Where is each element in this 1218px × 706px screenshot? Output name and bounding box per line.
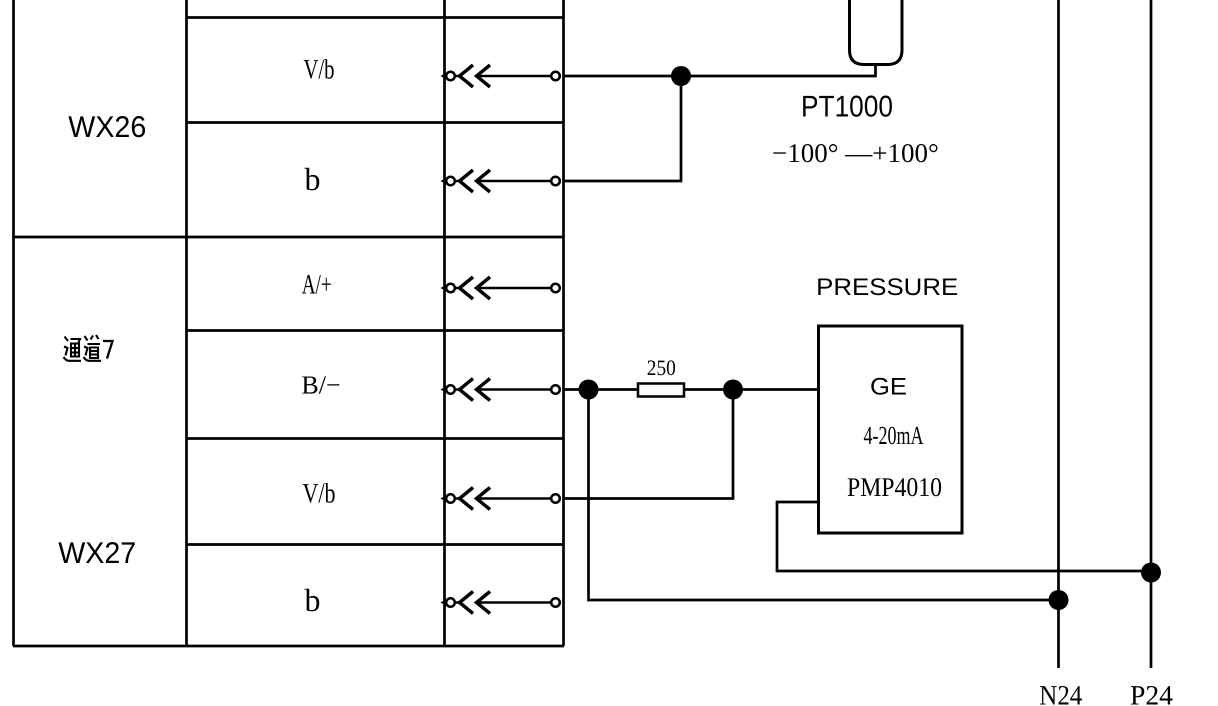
connector contact row 6 (b WX27) xyxy=(441,592,560,614)
connector contact row 2 (b WX26) xyxy=(441,170,560,192)
wire: table bottom line y646 xyxy=(13,645,564,648)
connector contact row 4 (B/-) xyxy=(441,379,560,401)
wire: N24 power rail vertical xyxy=(1057,0,1060,668)
wire: row line y438 xyxy=(187,437,565,440)
svg-text:V/b: V/b xyxy=(303,479,336,510)
wire: row line y122 xyxy=(187,121,565,124)
wire: right junction down to V/b WX27 row xyxy=(564,390,733,499)
svg-text:V/b: V/b xyxy=(304,55,335,86)
terminal block channel 7 label (Chinese: tongdao 7) xyxy=(64,335,113,361)
resistor 250 body xyxy=(638,384,684,397)
node: junction on N24 line xyxy=(1049,590,1069,610)
node: junction on V/b wire xyxy=(671,66,691,86)
svg-text:4-20mA: 4-20mA xyxy=(864,421,924,450)
wire: terminal table vertical border left xyxy=(12,0,15,646)
digit 7 of channel label xyxy=(103,341,113,359)
svg-text:b: b xyxy=(305,582,321,618)
pressure transmitter U1 box xyxy=(819,326,963,533)
wire: terminal table vertical border 3 xyxy=(443,0,446,646)
wire: row line y17 xyxy=(187,16,565,19)
svg-text:250: 250 xyxy=(647,355,676,380)
svg-text:PT1000: PT1000 xyxy=(801,90,893,123)
svg-text:−100° —+100°: −100° —+100° xyxy=(772,138,939,168)
wire: terminal table vertical border right xyxy=(562,0,565,646)
node: junction left of resistor xyxy=(579,380,599,400)
wire: row line y544 xyxy=(187,543,565,546)
svg-text:B/−: B/− xyxy=(301,371,340,400)
svg-text:PRESSURE: PRESSURE xyxy=(816,274,958,301)
svg-text:WX26: WX26 xyxy=(68,111,146,144)
svg-text:GE: GE xyxy=(870,374,907,401)
wire: GE box to P24 xyxy=(777,502,1151,571)
svg-text:N24: N24 xyxy=(1039,681,1082,706)
connector contact row 5 (V/b WX27) xyxy=(441,488,560,510)
wire: group divider line y237 xyxy=(13,236,564,239)
resistor R 250 ohm: wire B/- row to GE box xyxy=(564,388,638,391)
wire: row line y330 xyxy=(187,329,565,332)
temperature probe PT1000 body xyxy=(850,0,903,65)
connector contact row 3 (A/+) xyxy=(441,277,560,299)
node: junction on P24 line xyxy=(1141,563,1161,583)
svg-text:b: b xyxy=(305,161,321,197)
wire: left junction down and right to N24 xyxy=(589,390,1059,601)
svg-text:WX27: WX27 xyxy=(58,537,136,570)
svg-text:P24: P24 xyxy=(1130,681,1173,706)
svg-text:PMP4010: PMP4010 xyxy=(847,472,942,502)
connector contact row 1 (V/b WX26) xyxy=(441,65,560,87)
wire: resistor to GE box xyxy=(684,388,818,391)
node: junction right of resistor xyxy=(723,380,743,400)
svg-text:A/+: A/+ xyxy=(302,270,332,301)
wire: P24 power rail vertical xyxy=(1150,0,1153,668)
wire: V/b row to PT1000 sensor xyxy=(564,64,876,76)
wire: junction down to b row xyxy=(564,76,681,181)
wire: terminal table vertical border 2 xyxy=(185,0,188,646)
